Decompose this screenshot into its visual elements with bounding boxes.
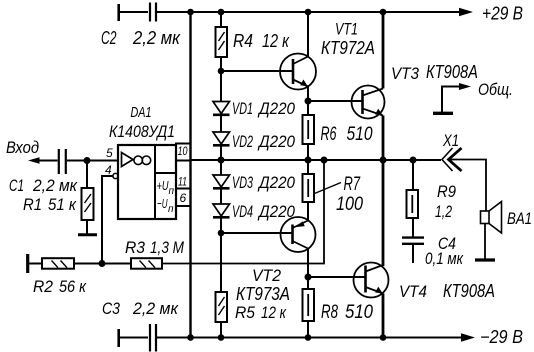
node Вход input arrow [28, 157, 58, 164]
R7 label [336, 174, 363, 215]
Вход label [6, 138, 39, 157]
Общ. label [478, 80, 513, 99]
svg-text:BA1: BA1 [507, 209, 532, 228]
R8 label [321, 302, 373, 323]
-29 В label [480, 327, 523, 347]
svg-text:VT4: VT4 [399, 282, 427, 301]
junction R4/VD1/VT1 base [218, 68, 225, 75]
svg-text:56 к: 56 к [59, 277, 87, 296]
svg-text:R1: R1 [23, 195, 42, 214]
svg-text:п: п [168, 204, 174, 215]
junction R2/R3/pin4 [99, 260, 106, 267]
svg-text:VT1: VT1 [335, 20, 358, 39]
capacitor C1 [59, 149, 118, 174]
svg-text:1,2: 1,2 [435, 202, 452, 221]
junction bottom rail x=383 [380, 334, 387, 341]
svg-text:Общ.: Общ. [478, 80, 513, 99]
svg-text:12 к: 12 к [262, 31, 290, 51]
wire bottom rail [120, 337, 462, 339]
wire VT3 base [308, 100, 362, 102]
DA1 label [109, 105, 175, 141]
svg-text:С2: С2 [101, 28, 117, 48]
pin 10 label [178, 144, 188, 158]
R3 label [125, 238, 185, 257]
resistor R9 [407, 160, 419, 237]
svg-text:КТ973А: КТ973А [236, 284, 290, 304]
transistor VT3 КТ908А [352, 12, 385, 160]
wire VT4 base [308, 276, 365, 278]
svg-text:Д220: Д220 [257, 173, 295, 192]
svg-text:Д220: Д220 [257, 132, 295, 151]
junction output/VT3 emitter [380, 157, 387, 164]
wire pin4 to R2/R3 node [102, 176, 113, 264]
op-amp -Uп label [157, 196, 174, 215]
connector X1 [442, 148, 486, 211]
diode VD3 Д220 [213, 175, 230, 188]
svg-text:КТ908А: КТ908А [443, 281, 495, 301]
svg-text:R4: R4 [233, 31, 253, 51]
svg-text:Вход: Вход [6, 138, 39, 157]
R6 value label [321, 124, 373, 145]
capacitor C2 [119, 3, 156, 22]
R9 label [435, 182, 456, 221]
svg-text:−U: −U [157, 196, 168, 211]
svg-text:R7: R7 [344, 174, 361, 195]
wire VT1 base [221, 70, 292, 72]
transistor VT4 КТ908А [354, 160, 389, 338]
svg-text:К1408УД1: К1408УД1 [109, 122, 175, 141]
svg-text:100: 100 [336, 194, 363, 215]
svg-text:VT3: VT3 [391, 64, 419, 83]
junction top rail x=308 [305, 9, 312, 16]
node +29V arrow [459, 8, 473, 16]
C1 label [9, 176, 78, 195]
svg-text:+U: +U [157, 178, 169, 193]
C3 label [102, 299, 179, 318]
resistor R2 [28, 254, 131, 273]
svg-text:VD2: VD2 [232, 132, 253, 151]
VT1 label [321, 20, 375, 59]
svg-text:1,3 М: 1,3 М [150, 238, 185, 257]
junction output/R6-R7 [305, 157, 312, 164]
VT2 base wire [221, 232, 292, 234]
svg-text:0,1 мк: 0,1 мк [425, 249, 464, 268]
junction output line / diode chain [218, 157, 225, 164]
X1 label [442, 131, 459, 150]
junction VT1 emitter / VT3 base / R6 [305, 98, 312, 105]
resistor R6 [303, 101, 315, 160]
R7 pointer line [315, 183, 342, 194]
wire VD3-VD4 [220, 189, 222, 204]
svg-text:VD4: VD4 [232, 202, 253, 221]
svg-text:КТ908А: КТ908А [426, 62, 478, 82]
op-amp infinity symbol [134, 156, 151, 165]
ground Общ. terminal [433, 83, 471, 113]
svg-text:R3: R3 [125, 238, 145, 257]
svg-text:51 к: 51 к [48, 195, 77, 214]
R2 label [33, 277, 87, 296]
svg-text:5: 5 [106, 146, 113, 160]
svg-text:2,2 мк: 2,2 мк [132, 28, 181, 48]
svg-text:VT2: VT2 [252, 266, 281, 285]
svg-text:R2: R2 [33, 277, 53, 296]
junction output/R9 [410, 157, 417, 164]
capacitor C3 [119, 324, 156, 352]
pin 4 label [105, 163, 112, 177]
speaker BA1 [475, 202, 502, 261]
svg-text:+29 В: +29 В [482, 4, 523, 24]
transistor VT2 КТ973А [281, 202, 316, 277]
svg-text:VD1: VD1 [232, 99, 253, 118]
op-amp pin4 inversion circle [113, 173, 118, 178]
junction output/feedback [321, 157, 328, 164]
wire output line [191, 159, 442, 161]
svg-text:X1: X1 [442, 131, 459, 150]
junction VT2 base tap [218, 230, 225, 237]
junction top rail x=383 [380, 9, 387, 16]
capacitor C4 [402, 238, 424, 263]
svg-text:510: 510 [347, 124, 373, 145]
svg-text:п: п [169, 186, 175, 197]
svg-text:R9: R9 [437, 182, 456, 201]
junction bottom rail x=308 [305, 334, 312, 341]
R1 label [23, 195, 77, 214]
diode VD4 Д220 [213, 204, 230, 217]
svg-text:12 к: 12 к [261, 303, 287, 322]
resistor R4 [216, 12, 228, 71]
wire VD4 to R5 [220, 218, 222, 293]
R5 value label [235, 303, 287, 322]
node +29 В label [482, 4, 523, 24]
junction C1/R1/pin5 [84, 157, 91, 164]
op-amp DA1 К1408УД1 [118, 144, 191, 220]
wire feedback R3 to output [162, 160, 324, 264]
svg-text:10: 10 [178, 144, 188, 158]
svg-text:DA1: DA1 [131, 105, 152, 121]
svg-text:4: 4 [105, 163, 112, 177]
wire diode chain to output node [220, 146, 222, 175]
transistor VT1 КТ972А [280, 12, 316, 101]
diode VD1 Д220 [213, 71, 230, 115]
svg-text:2,2 мк: 2,2 мк [132, 299, 179, 318]
BA1 label [507, 209, 532, 228]
svg-text:11: 11 [178, 175, 187, 189]
node -29V arrow [461, 333, 475, 341]
svg-text:VD3: VD3 [232, 173, 253, 192]
junction top rail x=221 [218, 9, 225, 16]
wire +29V drop / op-amp pin column / pin6 drop [189, 12, 191, 338]
svg-text:510: 510 [345, 302, 373, 323]
VT2 label [236, 266, 290, 304]
svg-text:Д220: Д220 [257, 99, 295, 118]
C4 label [425, 234, 464, 268]
svg-text:С1: С1 [9, 176, 24, 195]
resistor R3 [131, 258, 162, 269]
svg-text:2,2 мк: 2,2 мк [32, 176, 78, 195]
VT3 label [391, 62, 478, 83]
C2 value label [101, 28, 181, 48]
resistor R7 [303, 160, 315, 202]
svg-text:С3: С3 [102, 299, 120, 318]
diode VD2 Д220 [213, 115, 230, 145]
resistor R8 [303, 277, 315, 338]
pin 11 label [178, 175, 187, 189]
wire top rail [120, 11, 461, 13]
svg-text:КТ972А: КТ972А [321, 38, 375, 58]
pin 6 label [180, 191, 187, 205]
junction top rail x=190.5 [187, 9, 194, 16]
resistor R1 [78, 161, 97, 235]
svg-text:−29 В: −29 В [480, 327, 523, 347]
junction bottom rail x=190.5 [187, 334, 194, 341]
resistor R5 [216, 292, 228, 338]
svg-text:6: 6 [180, 191, 187, 205]
VT4 label [399, 281, 495, 301]
svg-text:R6: R6 [321, 124, 337, 145]
svg-text:R5: R5 [235, 303, 255, 322]
pin 5 label [106, 146, 113, 160]
junction VT2 collector / VT4 base / R8 [305, 274, 312, 281]
op-amp +Uп label [157, 178, 175, 197]
svg-text:R8: R8 [321, 302, 338, 323]
R4 value label [233, 31, 290, 51]
junction bottom rail x=221 [218, 334, 225, 341]
